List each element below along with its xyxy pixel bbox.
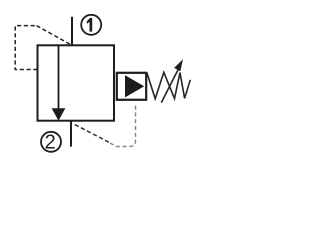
flow arrow (port 1 to port 2): [52, 45, 66, 121]
pilot line (dashed, from port 1 to left side of valve body): [15, 26, 70, 70]
poppet (filled triangle, pointing right): [125, 75, 144, 97]
node 2 (port label): [41, 132, 61, 154]
valve body U1 (main envelope): [38, 45, 115, 120]
wire: port 2 line: [70, 121, 72, 147]
pilot stage box: [117, 73, 146, 100]
spring (zigzag): [147, 72, 191, 99]
node 1 (port label): [81, 15, 101, 35]
adjustment arrow through spring: [161, 59, 183, 102]
drain line (dashed, spring chamber to port 2): [73, 106, 136, 147]
wire: port 1 line: [71, 17, 73, 46]
svg-text:2: 2: [45, 132, 56, 154]
